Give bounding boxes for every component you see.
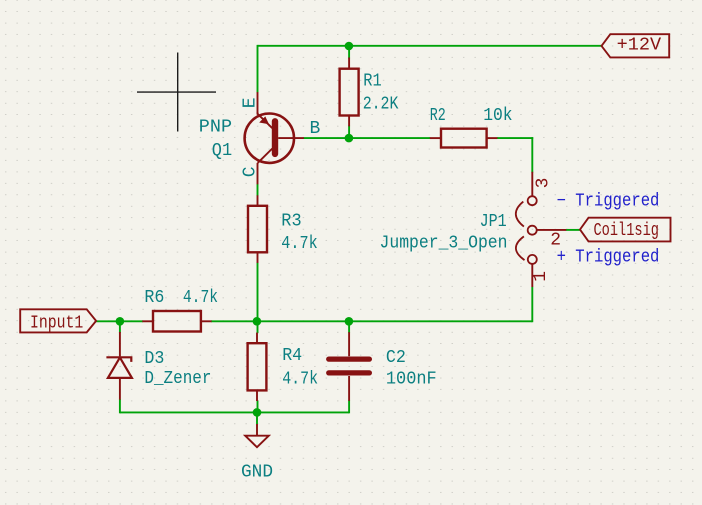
global label Input1 [20,309,96,333]
wire D3 top stub [119,321,121,333]
wire input row right [211,320,532,322]
wire base row left [304,137,431,139]
svg-text:+ Triggered: + Triggered [557,247,660,267]
wire JP1 pin2 to label [566,229,581,231]
svg-text:4.7k: 4.7k [183,288,218,308]
wire GND stub [256,412,258,424]
junction node R1 top [345,42,354,51]
wire top row [258,45,602,47]
wire R3 bottom to input row [257,262,259,321]
svg-text:R2: R2 [430,106,446,126]
svg-text:B: B [310,119,321,139]
svg-text:GND: GND [241,462,273,482]
svg-text:+12V: +12V [617,36,662,56]
junction node C2 top [345,317,354,326]
wire top corner to emitter [257,45,259,93]
svg-text:C2: C2 [386,348,406,368]
label R3 value [281,212,317,255]
resistor R2 [430,129,498,148]
capacitor C2 [329,332,370,401]
svg-text:3: 3 [533,178,553,189]
svg-text:R1: R1 [363,72,381,92]
svg-text:1: 1 [531,271,551,282]
svg-text:4.7k: 4.7k [282,370,318,390]
svg-text:E: E [240,97,260,108]
svg-text:4.7k: 4.7k [281,234,317,254]
wire C2 bottom stub [348,400,350,413]
junction node GND [253,408,262,417]
wire R1 top stub [348,46,350,59]
resistor R3 [248,195,267,263]
label Q1 [199,118,232,162]
wire R4 bottom stub [257,400,259,412]
svg-text:Jumper_3_Open: Jumper_3_Open [380,234,508,254]
wire JP1 top drop [531,137,533,172]
jumper JP1 [516,172,567,287]
svg-text:− Triggered: − Triggered [557,192,660,212]
svg-text:2.2K: 2.2K [363,95,399,115]
wire R1 bottom stub [348,126,350,139]
power label +12V [602,34,670,57]
junction node base [345,134,354,143]
wire D3 bottom stub [119,399,121,413]
wire JP1 pin1 drop [531,287,533,322]
svg-text:Q1: Q1 [212,141,232,161]
svg-text:D_Zener: D_Zener [144,369,211,389]
wire R4 top stub [257,321,259,333]
ground [241,424,273,482]
label R6 value [144,288,218,308]
resistor R1 [340,58,359,127]
wire collector to R3 [257,184,259,196]
svg-text:R3: R3 [281,212,301,232]
resistor R6 [142,311,211,332]
wire input row left [96,320,143,322]
wire base row right [497,137,533,139]
label C2 value [386,348,437,390]
svg-text:R6: R6 [144,288,164,308]
svg-text:D3: D3 [144,349,164,369]
wire bottom row [120,411,349,413]
junction node input-D3 [116,317,125,326]
svg-text:R4: R4 [282,346,302,366]
svg-text:10k: 10k [483,106,512,126]
svg-text:C: C [240,166,260,177]
junction node R3-R4 [253,317,262,326]
label D3 value [144,349,211,389]
svg-text:Input1: Input1 [30,314,83,334]
label R1 value [363,72,399,115]
transistor Q1 [245,92,304,184]
resistor R4 [248,333,267,401]
svg-text:Coil1sig: Coil1sig [594,221,660,241]
label R4 value [282,346,318,389]
label R2 value [430,106,513,126]
svg-text:JP1: JP1 [480,212,507,232]
diode D3 zener [106,332,131,400]
svg-text:PNP: PNP [199,118,232,138]
global label Coil1sig [580,218,671,242]
origin crosshair [137,53,216,132]
label JP1 [380,212,508,253]
wire C2 top stub [348,321,350,333]
svg-text:100nF: 100nF [386,370,437,390]
